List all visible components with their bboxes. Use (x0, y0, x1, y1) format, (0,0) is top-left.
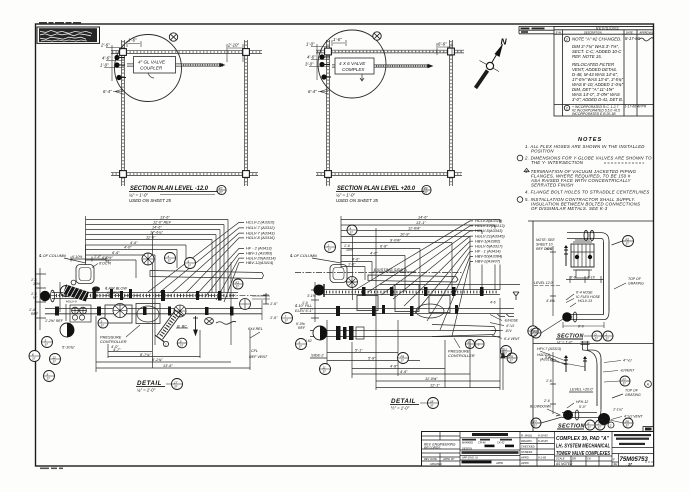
svg-text:CONTROLLER: CONTROLLER (448, 353, 475, 358)
svg-text:HCLV-13: HCLV-13 (578, 299, 592, 303)
svg-text:APPD: APPD (520, 455, 529, 459)
svg-text:11'-6": 11'-6" (146, 236, 156, 240)
svg-text:14'-6": 14'-6" (152, 226, 162, 230)
svg-text:MARKED: MARKED (462, 441, 473, 445)
svg-text:11'-0" REF: 11'-0" REF (153, 221, 172, 225)
svg-text:6'-4 VENT: 6'-4 VENT (504, 337, 520, 341)
svg-text:8-17-66: 8-17-66 (625, 36, 641, 41)
svg-text:6'-4": 6'-4" (103, 89, 112, 94)
svg-text:4'-6": 4'-6" (102, 56, 111, 61)
svg-text:APP. ENG. M.: APP. ENG. M. (461, 456, 479, 460)
svg-text:CHECKED: CHECKED (521, 445, 535, 449)
svg-text:37: 37 (534, 424, 538, 428)
svg-text:9-1-65: 9-1-65 (538, 455, 547, 459)
svg-text:2'-6: 2'-6 (543, 399, 550, 403)
svg-text:37: 37 (174, 385, 178, 389)
svg-text:ELEV 6'-1": ELEV 6'-1" (295, 309, 313, 313)
svg-text:1'-6": 1'-6" (128, 38, 137, 43)
svg-text:37: 37 (53, 360, 57, 364)
svg-text:4'-6: 4'-6 (545, 355, 551, 359)
svg-text:37: 37 (328, 248, 332, 252)
svg-text:37: 37 (188, 264, 192, 268)
svg-text:3'-6: 3'-6 (570, 276, 576, 280)
svg-text:CONTROLLER: CONTROLLER (100, 339, 127, 344)
svg-text:6'-10½: 6'-10½ (72, 255, 82, 259)
svg-text:℄ OF COLUMN: ℄ OF COLUMN (290, 253, 317, 258)
svg-text:LH₂ SYSTEM MECHANICAL: LH₂ SYSTEM MECHANICAL (556, 444, 610, 450)
svg-text:GRATING: GRATING (625, 393, 641, 397)
svg-text:GRATING: GRATING (628, 281, 644, 285)
svg-text:13'-6": 13'-6" (160, 216, 170, 220)
svg-text:6'-4 HOSE: 6'-4 HOSE (576, 290, 593, 294)
svg-text:UPDATED: UPDATED (430, 463, 442, 466)
svg-text:37: 37 (45, 343, 49, 347)
svg-text:8'-7¼": 8'-7¼" (140, 353, 151, 357)
svg-text:14'-6": 14'-6" (418, 216, 428, 220)
svg-text:DRAWN: DRAWN (521, 439, 532, 443)
svg-text:2'-10": 2'-10" (227, 43, 239, 48)
svg-text:37: 37 (180, 344, 184, 348)
svg-text:REVISIONS: REVISIONS (596, 26, 619, 30)
svg-text:THE Y- INTERSECTION: THE Y- INTERSECTION (531, 160, 584, 165)
svg-text:COMPLEX 39, PAD "A": COMPLEX 39, PAD "A" (556, 436, 610, 442)
svg-text:8-18-65: 8-18-65 (538, 434, 548, 438)
svg-text:HGLV-9: HGLV-9 (66, 300, 77, 304)
svg-text:5'-0": 5'-0" (579, 405, 587, 409)
svg-text:9'-0⅝": 9'-0⅝" (390, 239, 401, 243)
svg-text:37: 37 (430, 404, 434, 408)
svg-text:37: 37 (626, 424, 630, 428)
svg-text:APPD: APPD (495, 461, 503, 465)
svg-text:37: 37 (323, 370, 327, 374)
svg-text:3'-1⅝: 3'-1⅝ (307, 294, 316, 298)
svg-text:BLOWDOWN: BLOWDOWN (530, 405, 551, 409)
svg-text:COMPLEX: COMPLEX (342, 67, 365, 72)
svg-text:13'-6": 13'-6" (163, 364, 173, 368)
svg-text:REF: REF (31, 312, 39, 316)
svg-text:37: 37 (510, 359, 514, 363)
svg-text:1'-0": 1'-0" (100, 63, 109, 68)
svg-text:SERRATED FINISH: SERRATED FINISH (531, 183, 574, 188)
svg-text:1'-0: 1'-0 (302, 301, 308, 305)
svg-text:HBV-2(A3437): HBV-2(A3437) (475, 259, 501, 264)
svg-text:1'-6: 1'-6 (546, 379, 552, 383)
svg-text:LEVEL 12.0': LEVEL 12.0' (534, 281, 554, 285)
svg-text:NOTE: SEE: NOTE: SEE (536, 238, 555, 242)
svg-text:-E/HOSE: -E/HOSE (504, 319, 519, 323)
svg-text:SIDE-2: SIDE-2 (311, 353, 324, 358)
svg-text:4'-6: 4'-6 (490, 301, 496, 305)
svg-text:2'-6": 2'-6" (100, 43, 110, 48)
svg-text:N: N (501, 37, 508, 47)
svg-text:TOP OF: TOP OF (625, 389, 639, 393)
svg-text:4'-8": 4'-8" (390, 365, 398, 369)
svg-text:REF: REF (298, 326, 306, 330)
svg-text:1'-4": 1'-4" (94, 255, 102, 259)
svg-text:4'-6⅝: 4'-6⅝ (546, 299, 555, 303)
svg-text:¼" = 1'-0": ¼" = 1'-0" (129, 193, 148, 198)
svg-text:4 X 6 VALVE: 4 X 6 VALVE (339, 61, 366, 66)
svg-text:1: 1 (566, 106, 568, 111)
svg-text:INCORPORATED E.B 20-1B: INCORPORATED E.B 20-1B (572, 112, 616, 116)
svg-text:CR-48: CR-48 (478, 441, 486, 445)
svg-text:½" = 1'-0": ½" = 1'-0" (557, 341, 573, 345)
svg-text:37: 37 (350, 231, 354, 235)
svg-text:37: 37 (219, 191, 223, 195)
svg-text:-E/VENT: -E/VENT (620, 369, 635, 373)
svg-text:℄ OF COLUMN: ℄ OF COLUMN (39, 253, 66, 258)
svg-text:4'-6": 4'-6" (352, 258, 360, 262)
svg-text:REF. NOTE 15.: REF. NOTE 15. (572, 54, 602, 59)
svg-text:37: 37 (168, 259, 172, 263)
svg-text:TOWER VALVE COMPLEXES: TOWER VALVE COMPLEXES (556, 451, 610, 457)
svg-text:4" GL VALVE: 4" GL VALVE (138, 59, 166, 64)
svg-text:4'-6": 4'-6" (370, 252, 378, 256)
svg-text:USED ON SHEET 25: USED ON SHEET 25 (129, 198, 172, 203)
svg-text:9'-2¾": 9'-2¾" (152, 358, 163, 362)
svg-text:37: 37 (47, 377, 51, 381)
svg-text:HGLV-8 (A3316): HGLV-8 (A3316) (246, 235, 275, 240)
svg-text:½" = 1'-0": ½" = 1'-0" (391, 406, 410, 411)
svg-text:6'-4": 6'-4" (308, 89, 317, 94)
svg-text:A: A (646, 383, 649, 387)
svg-text:37: 37 (598, 426, 602, 430)
svg-text:APPD: APPD (520, 461, 529, 465)
svg-text:10'-9": 10'-9" (400, 233, 410, 237)
svg-text:3'-0": 3'-0" (305, 62, 314, 67)
svg-text:4" VJ: 4" VJ (623, 359, 632, 363)
svg-text:CFL: CFL (251, 349, 258, 353)
svg-text:37: 37 (588, 426, 592, 430)
svg-text:COUPLER: COUPLER (140, 65, 163, 70)
svg-text:APPROVAL: APPROVAL (639, 30, 654, 34)
svg-text:SECTION PLAN LEVEL -12.0: SECTION PLAN LEVEL -12.0 (130, 186, 209, 192)
svg-text:REF VENT: REF VENT (249, 355, 268, 359)
svg-text:5'-8": 5'-8" (368, 357, 376, 361)
svg-text:3'-0"; ADDED D-41, DET B.: 3'-0"; ADDED D-41, DET B. (572, 97, 623, 102)
svg-text:75M05753: 75M05753 (620, 457, 649, 463)
svg-text:37: 37 (626, 242, 630, 246)
svg-text:37: 37 (606, 337, 610, 341)
svg-text:4'-6": 4'-6" (400, 370, 408, 374)
svg-text:5'-10¾": 5'-10¾" (62, 346, 75, 350)
svg-text:2: 2 (609, 424, 612, 428)
svg-text:1-17-66 APPR: 1-17-66 APPR (625, 105, 647, 109)
svg-text:NOTES: NOTES (578, 137, 602, 143)
svg-text:POSITION: POSITION (531, 149, 554, 154)
svg-text:6'-8": 6'-8" (380, 245, 388, 249)
svg-text:DR: DR (572, 457, 576, 461)
svg-text:37: 37 (101, 324, 105, 328)
svg-text:37: 37 (32, 357, 36, 361)
svg-text:SH: SH (614, 462, 618, 466)
svg-text:1'-0": 1'-0" (306, 42, 315, 47)
svg-text:37: 37 (299, 345, 303, 349)
svg-text:SYM: SYM (556, 30, 562, 34)
svg-text:SECTION PLAN LEVEL +20.0: SECTION PLAN LEVEL +20.0 (337, 186, 416, 192)
svg-text:DESIGN: DESIGN (462, 446, 472, 450)
svg-text:SCALE: SCALE (556, 457, 565, 461)
svg-text:SHEET 10: SHEET 10 (536, 242, 553, 246)
svg-text:HFV-7 (A3313): HFV-7 (A3313) (537, 347, 561, 351)
svg-text:37: 37 (595, 337, 599, 341)
svg-text:HCLV-2 (A3310): HCLV-2 (A3310) (246, 220, 275, 225)
svg-text:DETAIL: DETAIL (137, 380, 162, 387)
svg-text:NOTE "A" #2 CHANGED.: NOTE "A" #2 CHANGED. (572, 37, 621, 42)
svg-text:6'OC'R: 6'OC'R (99, 262, 111, 266)
svg-text:10½: 10½ (346, 248, 353, 252)
svg-text:6'-6": 6'-6" (438, 42, 447, 47)
svg-text:17'-6¼": 17'-6¼" (150, 231, 163, 235)
svg-text:1'-6": 1'-6" (270, 302, 278, 306)
svg-text:APPD. BY: APPD. BY (442, 458, 455, 461)
svg-text:REV. DATE: REV. DATE (424, 458, 437, 461)
svg-text:IC FLEX HOSE: IC FLEX HOSE (576, 295, 601, 299)
svg-text:4. FLANGE BOLT HOLES TO STRADD: 4. FLANGE BOLT HOLES TO STRADDLE CENTERL… (525, 190, 650, 195)
svg-text:¼" = 1'-0": ¼" = 1'-0" (137, 388, 156, 393)
svg-text:LEVEL +20.0': LEVEL +20.0' (570, 388, 593, 392)
svg-text:37: 37 (534, 334, 538, 338)
svg-text:4"-VJ: 4"-VJ (506, 324, 514, 328)
svg-text:2: 2 (477, 342, 480, 346)
svg-text:RECORDS: RECORDS (424, 446, 441, 450)
svg-text:37: 37 (401, 359, 405, 363)
svg-text:12'-1": 12'-1" (430, 384, 440, 388)
svg-text:12: 12 (468, 345, 472, 349)
svg-text:1'-1¼": 1'-1¼" (613, 408, 624, 412)
svg-text:EXISTING SIDE A: EXISTING SIDE A (374, 267, 407, 272)
svg-text:37: 37 (236, 285, 240, 289)
svg-text:4'-6: 4'-6 (546, 247, 552, 251)
svg-text:8-18-65: 8-18-65 (538, 439, 548, 443)
svg-text:CH: CH (587, 457, 591, 461)
svg-text:13'-1": 13'-1" (416, 221, 426, 225)
svg-text:AS NOTED: AS NOTED (555, 462, 573, 466)
svg-text:4'-0": 4'-0" (124, 246, 132, 250)
svg-text:6X4 REL: 6X4 REL (248, 327, 263, 331)
svg-text:1'-10: 1'-10 (587, 276, 595, 280)
svg-text:USED ON SHEET 35: USED ON SHEET 35 (336, 198, 379, 203)
svg-text:1'-6": 1'-6" (348, 263, 356, 267)
svg-text:37: 37 (285, 319, 289, 323)
svg-text:-E/V: -E/V (505, 329, 512, 333)
svg-text:37: 37 (424, 191, 428, 195)
svg-text:F: F (613, 457, 615, 461)
svg-text:1'-2⅜" REF: 1'-2⅜" REF (45, 319, 64, 323)
svg-text:1'-6": 1'-6" (333, 37, 342, 42)
svg-text:11'-6⅝": 11'-6⅝" (408, 227, 421, 231)
svg-text:DESCRIPTION: DESCRIPTION (584, 30, 602, 34)
svg-text:TOP OF: TOP OF (628, 277, 642, 281)
svg-text:4'-7": 4'-7" (113, 348, 121, 352)
svg-text:OF DISSIMILAR METALS. SEE K-3: OF DISSIMILAR METALS. SEE K-3 (531, 206, 608, 211)
svg-text:4'-6": 4'-6" (130, 241, 138, 245)
svg-text:DATE: DATE (626, 30, 633, 34)
svg-text:CK-52: CK-52 (497, 441, 505, 445)
svg-text:HBV-12(A3414): HBV-12(A3414) (246, 260, 274, 265)
svg-text:6'-6": 6'-6" (112, 251, 120, 255)
svg-text:10½: 10½ (33, 282, 40, 286)
svg-text:5'-1": 5'-1" (355, 349, 363, 353)
svg-text:2: 2 (164, 343, 167, 347)
svg-text:HFH-12: HFH-12 (576, 400, 588, 404)
svg-text:11'-0⅝": 11'-0⅝" (425, 377, 438, 381)
svg-text:¼" = 1'-0": ¼" = 1'-0" (336, 193, 355, 198)
svg-text:DETAIL: DETAIL (391, 398, 416, 405)
svg-text:R. MADL: R. MADL (521, 434, 533, 438)
svg-text:1'-6": 1'-6" (270, 316, 278, 320)
svg-text:8'-0: 8'-0 (578, 325, 584, 329)
svg-text:STRESS: STRESS (521, 450, 532, 454)
svg-text:4'-6": 4'-6" (307, 55, 316, 60)
